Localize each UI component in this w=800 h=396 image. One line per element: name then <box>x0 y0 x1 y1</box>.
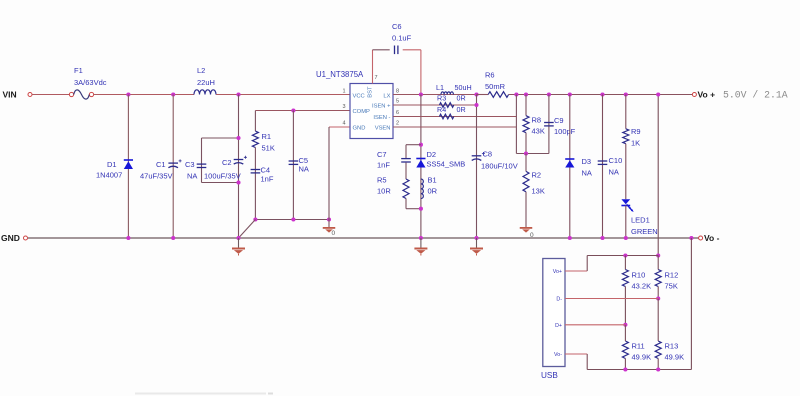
capacitor C7 <box>401 159 411 162</box>
ground symbol (C8) <box>470 238 483 256</box>
U1 reference label <box>316 70 364 79</box>
svg-text:R11: R11 <box>632 342 645 351</box>
R8 labels <box>532 116 545 136</box>
junction node B (C2 tap) <box>236 92 240 96</box>
capacitor C10 <box>598 161 608 164</box>
svg-text:100pF: 100pF <box>554 127 576 136</box>
R5 labels <box>377 176 391 196</box>
C8 labels <box>481 150 518 171</box>
R2 labels <box>532 171 545 196</box>
wire comp diagonal <box>239 220 256 239</box>
svg-text:VIN: VIN <box>3 90 17 100</box>
capacitor C1 <box>168 159 181 167</box>
svg-text:D-: D- <box>556 297 562 303</box>
C10 labels <box>609 156 623 177</box>
R13 labels <box>665 342 685 362</box>
svg-text:6: 6 <box>396 110 399 116</box>
capacitor C8 <box>472 152 485 160</box>
connector USB body <box>543 259 565 367</box>
svg-text:U1_NT3875A: U1_NT3875A <box>316 70 364 79</box>
wire C6 drop <box>420 50 422 95</box>
junction ISEN+ tap <box>474 103 478 107</box>
svg-text:R8: R8 <box>532 116 542 125</box>
svg-text:2: 2 <box>396 121 399 127</box>
ground 0 (comp) <box>323 227 336 233</box>
svg-text:0: 0 <box>332 230 336 237</box>
svg-text:R10: R10 <box>632 271 646 280</box>
R11 labels <box>632 342 652 362</box>
svg-text:COMP: COMP <box>353 109 371 115</box>
svg-text:C10: C10 <box>609 156 623 165</box>
wire USB Vo+ pin <box>565 270 587 272</box>
R9 labels <box>631 127 641 148</box>
junction rail USB return <box>689 236 693 240</box>
wire R2 top lead <box>525 154 527 172</box>
wire USB bottom line <box>587 369 691 371</box>
junction node A (D1 tap) <box>126 92 130 96</box>
wire USB return riser <box>690 238 692 370</box>
svg-text:Vo +: Vo + <box>698 90 716 100</box>
svg-text:1nF: 1nF <box>261 175 274 184</box>
inductor L1 <box>441 92 453 95</box>
junction rail C1 <box>171 236 175 240</box>
svg-text:LX: LX <box>383 94 390 100</box>
wire USB Vo+ riser <box>586 256 588 272</box>
svg-text:13K: 13K <box>532 187 545 196</box>
resistor R2 <box>523 171 529 191</box>
wire VIN to fuse <box>32 94 69 96</box>
node GND terminal <box>1 233 28 243</box>
wire C9 branch <box>548 95 550 154</box>
wire USB D- pin <box>565 298 658 300</box>
svg-text:NA: NA <box>187 172 197 181</box>
svg-text:D1: D1 <box>107 160 117 169</box>
svg-text:8: 8 <box>396 89 399 95</box>
junction R8 top <box>524 92 528 96</box>
wire snubber bottom <box>406 208 421 210</box>
capacitor C4 <box>251 170 261 173</box>
svg-text:GND: GND <box>1 233 20 243</box>
wire fuse to node A <box>94 94 194 96</box>
svg-text:Vo -: Vo - <box>704 233 720 243</box>
svg-text:180uF/10V: 180uF/10V <box>481 162 518 171</box>
svg-text:43.2K: 43.2K <box>632 282 652 291</box>
svg-text:C6: C6 <box>392 22 402 31</box>
junction C3 top <box>236 136 240 140</box>
svg-text:C2: C2 <box>222 158 232 167</box>
svg-text:R12: R12 <box>665 271 679 280</box>
wire R1 to C4 <box>254 148 256 220</box>
svg-text:49.9K: 49.9K <box>665 353 685 362</box>
diode D1 <box>124 160 133 169</box>
svg-text:C8: C8 <box>483 150 493 159</box>
junction C10 rail tap <box>600 92 604 96</box>
wire C6 right <box>403 49 421 51</box>
svg-text:BST: BST <box>367 86 373 98</box>
svg-text:50uH: 50uH <box>455 83 472 92</box>
junction rail LX <box>419 236 423 240</box>
junction snubber bottom <box>419 207 423 211</box>
wire USB top line <box>587 255 658 257</box>
wire GND rail <box>28 237 699 239</box>
wire 5V drop to USB <box>657 95 659 256</box>
C7 labels <box>377 150 390 170</box>
junction D+ node <box>623 323 627 327</box>
R6 labels <box>485 71 506 92</box>
resistor R4 <box>439 114 453 119</box>
wire R10 top lead <box>624 256 626 270</box>
junction C3 bottom <box>236 180 240 184</box>
svg-text:3A/63Vdc: 3A/63Vdc <box>74 78 107 87</box>
svg-text:Vo+: Vo+ <box>553 269 562 275</box>
wire comp bottom <box>255 219 329 221</box>
wire C3 loop bottom <box>202 182 239 184</box>
bottom faint line <box>135 393 273 395</box>
LED1 labels <box>631 216 658 237</box>
junction rail D1 <box>126 236 130 240</box>
wire R9 top lead <box>625 95 627 129</box>
wire R12 top lead <box>657 256 659 270</box>
svg-text:D3: D3 <box>582 157 592 166</box>
wire R11 bottom lead <box>624 359 626 370</box>
svg-text:1N4007: 1N4007 <box>96 171 122 180</box>
junction comp bottom left <box>253 217 257 221</box>
resistor R6 <box>488 92 508 98</box>
wire C1 branch <box>172 95 174 239</box>
junction rail D3 <box>568 236 572 240</box>
wire snubber left <box>405 145 407 158</box>
wire GND pin drop <box>328 127 330 227</box>
svg-text:SS54_SMB: SS54_SMB <box>427 160 466 169</box>
wire R11 leads <box>624 325 626 341</box>
junction LX node <box>419 92 423 96</box>
svg-text:NA: NA <box>299 165 309 174</box>
svg-text:R4: R4 <box>437 105 446 114</box>
R4 labels <box>437 105 466 114</box>
svg-text:50mR: 50mR <box>485 82 506 91</box>
svg-text:4: 4 <box>342 121 345 127</box>
svg-text:Vo-: Vo- <box>554 352 562 358</box>
svg-text:NA: NA <box>609 168 619 177</box>
svg-text:R3: R3 <box>437 94 446 103</box>
wire C3 loop left <box>201 138 203 183</box>
wire C6 left <box>373 49 390 51</box>
C1 labels <box>140 160 173 181</box>
wire C5 branch <box>292 111 294 220</box>
wire R10 to D+ node <box>624 287 626 325</box>
svg-text:1: 1 <box>342 89 345 95</box>
junction R10 top <box>623 253 627 257</box>
capacitor C9 <box>544 123 554 126</box>
C9 labels <box>554 116 576 136</box>
wire C7 to R5 <box>405 163 407 179</box>
svg-text:10R: 10R <box>377 187 391 196</box>
svg-text:0.1uF: 0.1uF <box>392 34 412 43</box>
wire BST riser <box>372 50 374 84</box>
junction rail C8 <box>474 236 478 240</box>
wire R12 to D- node <box>657 287 659 299</box>
op-amp U1 NT3875A body <box>350 84 393 139</box>
svg-text:C9: C9 <box>554 116 564 125</box>
wire R1 branch top <box>254 111 256 132</box>
svg-text:47uF/35V: 47uF/35V <box>140 172 173 181</box>
wire USB Vo- drop <box>586 354 588 370</box>
svg-text:5.0V / 2.1A: 5.0V / 2.1A <box>723 90 788 101</box>
svg-text:ISEN +: ISEN + <box>372 104 391 110</box>
svg-text:F1: F1 <box>74 66 83 75</box>
svg-text:ISEN -: ISEN - <box>373 115 390 121</box>
junction fb rail tap <box>514 92 518 96</box>
svg-text:51K: 51K <box>262 144 275 153</box>
wire L2 to node B <box>216 94 350 96</box>
wire USB D+ pin <box>565 324 625 326</box>
wire R13 leads <box>657 299 659 342</box>
C5 labels <box>299 156 309 174</box>
junction R9 rail tap <box>624 92 628 96</box>
wire C2 branch <box>238 95 240 239</box>
capacitor C5 <box>289 161 299 164</box>
svg-text:R6: R6 <box>485 71 495 80</box>
C2 labels <box>204 158 241 181</box>
capacitor C2 <box>234 156 247 164</box>
node Vo- terminal <box>699 233 720 243</box>
junction comp bottom C5 <box>291 217 295 221</box>
junction rail C10 <box>600 236 604 240</box>
U1 pin numbers <box>342 75 399 127</box>
capacitor C3 <box>197 164 207 167</box>
wire fb bottom <box>516 153 549 155</box>
B1 labels <box>428 176 438 196</box>
junction R12 rail tap <box>656 92 660 96</box>
fuse F1 <box>69 90 93 99</box>
resistor R5 <box>403 179 409 199</box>
R1 labels <box>262 132 275 153</box>
label 0 (comp) <box>332 230 336 237</box>
wire ISEN- line <box>393 116 516 118</box>
svg-text:1K: 1K <box>631 139 640 148</box>
L2 labels <box>197 66 215 87</box>
svg-text:3: 3 <box>342 104 345 110</box>
svg-text:D2: D2 <box>427 150 437 159</box>
wire output rail <box>509 94 693 96</box>
resistor R8 <box>523 116 529 133</box>
node VIN terminal <box>3 90 33 100</box>
wire VSEN line <box>393 126 516 128</box>
svg-text:L1: L1 <box>436 83 444 92</box>
node Vo+ terminal <box>692 90 715 100</box>
ground symbol (input) <box>232 238 245 256</box>
wire snubber top <box>406 144 421 146</box>
svg-text:VSEN: VSEN <box>375 126 391 132</box>
D1 labels <box>96 160 122 180</box>
U1 pin names <box>353 86 392 131</box>
wire R13 bottom lead <box>657 359 659 370</box>
wire LX column <box>420 95 422 239</box>
wire ISEN+ line <box>393 104 477 106</box>
wire C3 loop top <box>202 137 239 139</box>
svg-text:1nF: 1nF <box>377 161 390 170</box>
junction comp bottom right <box>327 217 331 221</box>
svg-text:7: 7 <box>375 75 378 81</box>
ground 0 (R2) <box>520 227 533 233</box>
svg-text:R1: R1 <box>262 132 272 141</box>
svg-text:D+: D+ <box>555 323 562 329</box>
D2 labels <box>427 150 466 169</box>
L1 labels <box>436 83 472 92</box>
svg-text:VCC: VCC <box>353 94 365 100</box>
svg-text:75K: 75K <box>665 282 678 291</box>
svg-text:NA: NA <box>582 169 592 178</box>
wire C10 branch <box>602 95 604 239</box>
resistor R12 <box>655 270 661 287</box>
svg-text:B1: B1 <box>428 176 437 185</box>
svg-text:C1: C1 <box>156 160 166 169</box>
wire C8 column <box>476 95 478 239</box>
resistor R11 <box>622 341 628 359</box>
ferrite bead B1 <box>421 179 423 199</box>
wire snubber bottom left <box>405 199 407 209</box>
svg-text:GREEN: GREEN <box>631 227 658 236</box>
resistor R3 <box>439 103 453 108</box>
wire rail L1out to R6 <box>477 94 489 96</box>
junction L1 out <box>474 92 478 96</box>
svg-text:R2: R2 <box>532 171 542 180</box>
svg-text:R13: R13 <box>665 342 679 351</box>
svg-text:49.9K: 49.9K <box>632 353 652 362</box>
wire USB Vo- pin <box>565 353 587 355</box>
wire R2 bottom lead <box>525 192 527 227</box>
junction D3 rail tap <box>568 92 572 96</box>
resistor R10 <box>622 270 628 287</box>
inductor L2 <box>194 90 216 95</box>
svg-text:5: 5 <box>396 99 399 105</box>
svg-text:22uH: 22uH <box>197 78 215 87</box>
wire LED to rail <box>625 206 627 239</box>
resistor R13 <box>655 341 661 359</box>
wire R9 to LED <box>625 144 627 200</box>
junction rail C2 <box>236 236 240 240</box>
label 0 (R2) <box>530 232 534 239</box>
diode D2 <box>416 159 425 168</box>
F1 labels <box>74 66 107 87</box>
C6 labels <box>392 22 412 43</box>
svg-text:C4: C4 <box>261 166 271 175</box>
svg-text:C7: C7 <box>377 150 387 159</box>
junction fb node <box>524 151 528 155</box>
svg-text:0R: 0R <box>428 187 438 196</box>
resistor R1 <box>252 131 258 147</box>
junction USB 5V node <box>656 253 660 257</box>
resistor R9 <box>623 129 629 144</box>
svg-text:0R: 0R <box>457 94 466 103</box>
wire R8 bottom lead <box>525 133 527 154</box>
junction snubber top <box>419 143 423 147</box>
capacitor C6 <box>395 46 398 55</box>
svg-text:R9: R9 <box>631 127 641 136</box>
svg-text:GND: GND <box>353 126 366 132</box>
wire fb vertical <box>515 95 517 154</box>
R10 labels <box>632 271 652 291</box>
junction R11 bottom <box>623 367 627 371</box>
svg-text:C3: C3 <box>185 160 195 169</box>
C4 labels <box>261 166 274 184</box>
junction C9 top <box>547 92 551 96</box>
junction C5 top <box>291 108 295 112</box>
wire R8 lead <box>525 95 527 116</box>
USB pin names <box>553 269 563 358</box>
R3 labels <box>437 94 466 103</box>
junction rail LED <box>624 236 628 240</box>
svg-text:LED1: LED1 <box>631 216 650 225</box>
LED LED1 <box>621 199 633 212</box>
junction R13 bottom <box>656 367 660 371</box>
svg-text:USB: USB <box>541 371 558 380</box>
svg-text:100uF/35V: 100uF/35V <box>204 172 241 181</box>
R12 labels <box>665 271 679 291</box>
diode D3 <box>565 159 574 168</box>
svg-text:0R: 0R <box>457 105 466 114</box>
wire D1 branch <box>127 95 129 239</box>
svg-text:R5: R5 <box>377 176 387 185</box>
D3 labels <box>582 157 592 178</box>
wire GND pin lead <box>329 126 350 128</box>
junction D- node <box>656 296 660 300</box>
wire COMP line <box>255 110 350 112</box>
ground symbol (power) <box>414 238 427 256</box>
wire D3 branch <box>569 95 571 239</box>
junction C1 tap <box>171 92 175 96</box>
Vo+ rating label <box>723 90 788 101</box>
svg-text:43K: 43K <box>532 127 545 136</box>
C3 labels <box>185 160 197 181</box>
USB label <box>541 371 558 380</box>
wire LX line <box>393 94 477 96</box>
svg-text:L2: L2 <box>197 66 205 75</box>
